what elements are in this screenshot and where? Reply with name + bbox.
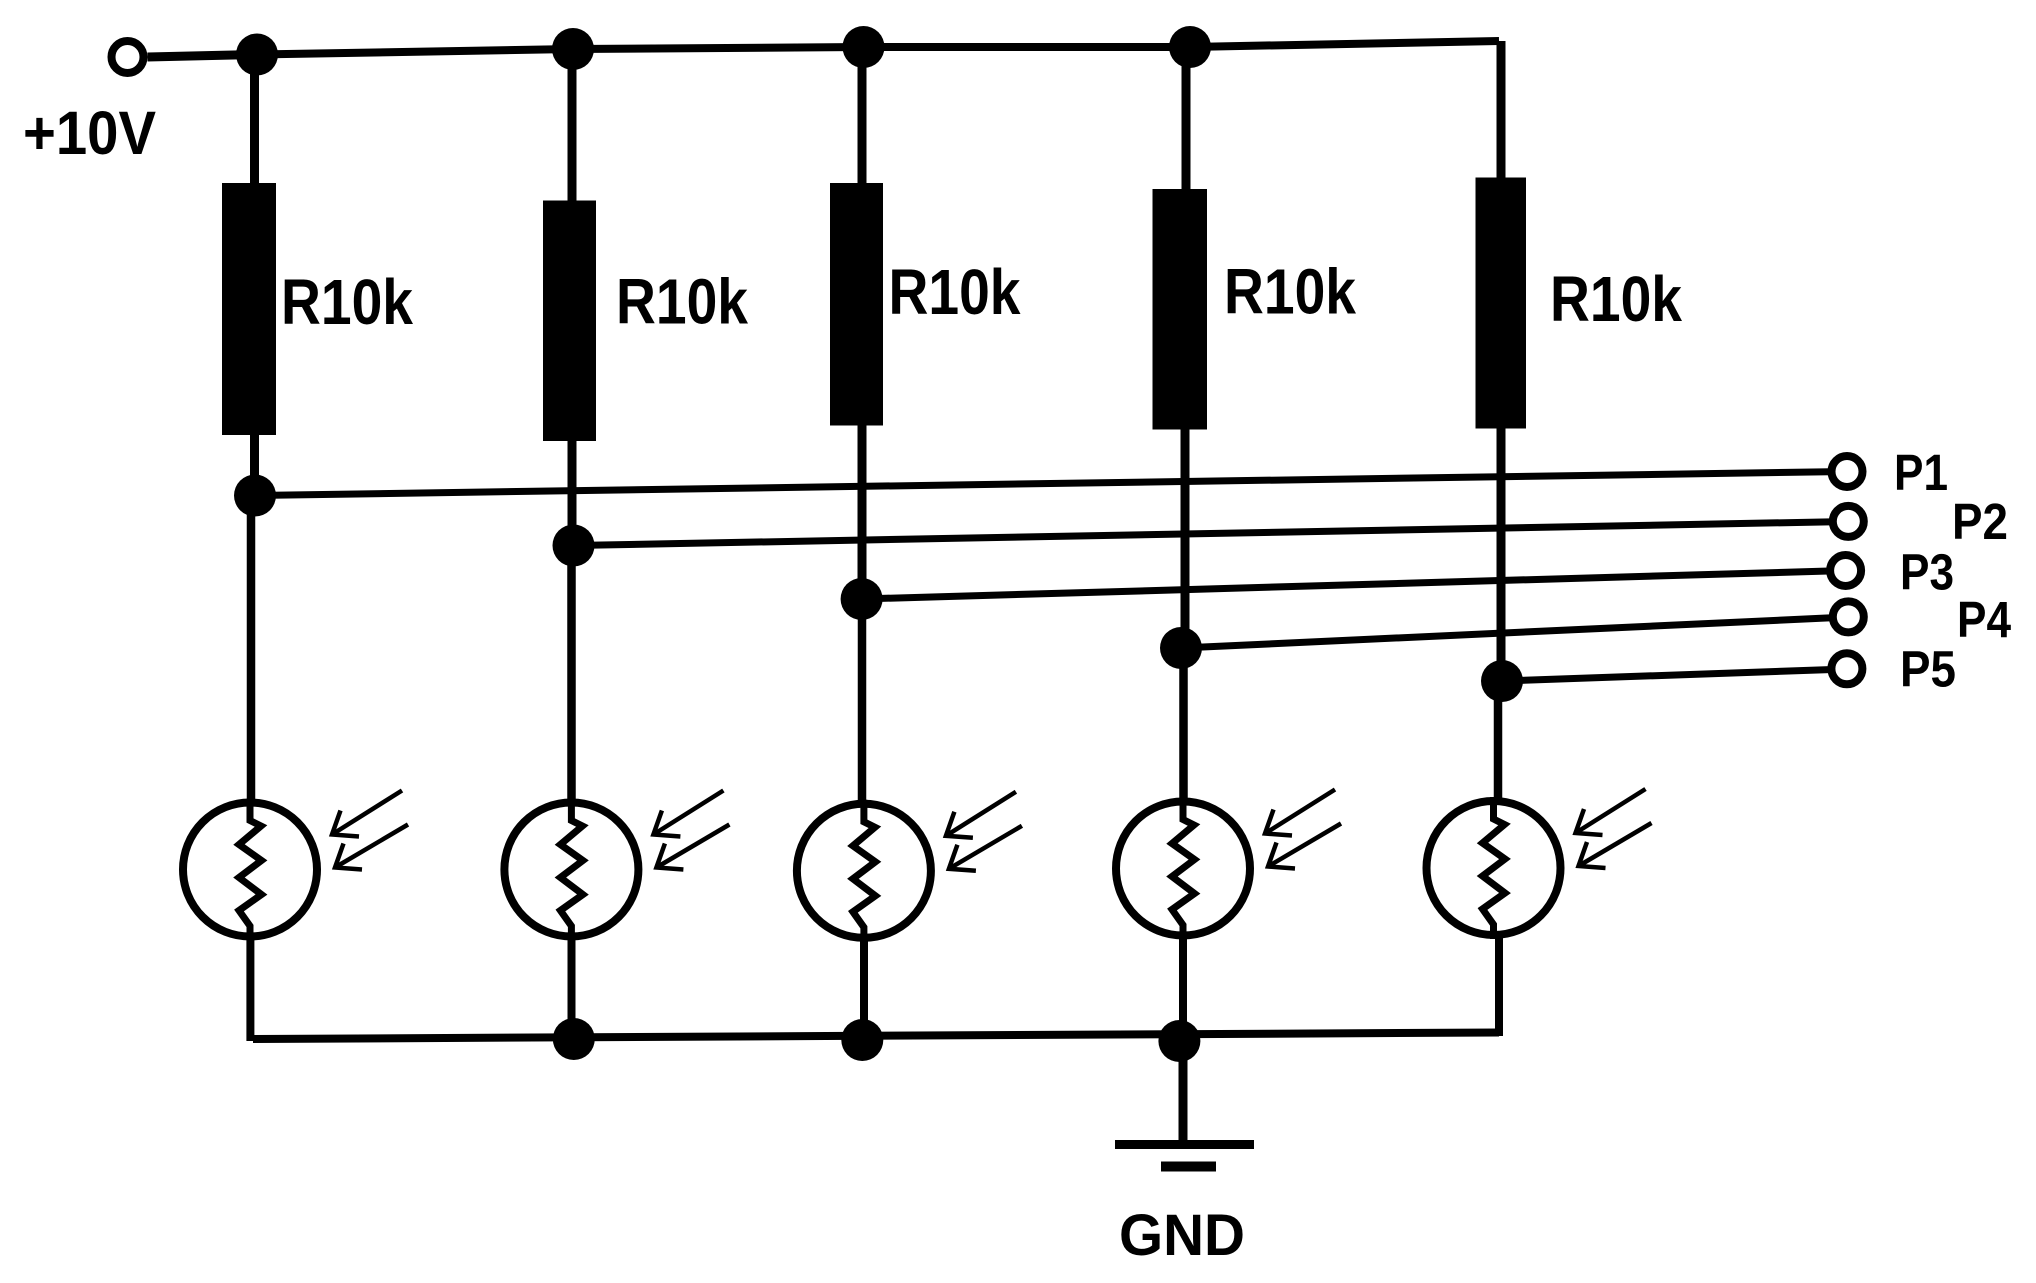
svg-text:R10k: R10k [1224, 256, 1356, 328]
svg-text:P3: P3 [1900, 544, 1954, 601]
svg-text:GND: GND [1119, 1203, 1245, 1268]
svg-text:R10k: R10k [281, 266, 413, 338]
svg-text:R10k: R10k [889, 256, 1021, 328]
svg-text:P1: P1 [1894, 444, 1948, 501]
svg-text:P2: P2 [1952, 493, 2008, 550]
svg-text:R10k: R10k [616, 266, 748, 338]
svg-text:R10k: R10k [1550, 263, 1682, 335]
svg-text:+10V: +10V [23, 99, 156, 167]
svg-text:P4: P4 [1957, 591, 2012, 648]
svg-text:P5: P5 [1900, 641, 1956, 698]
